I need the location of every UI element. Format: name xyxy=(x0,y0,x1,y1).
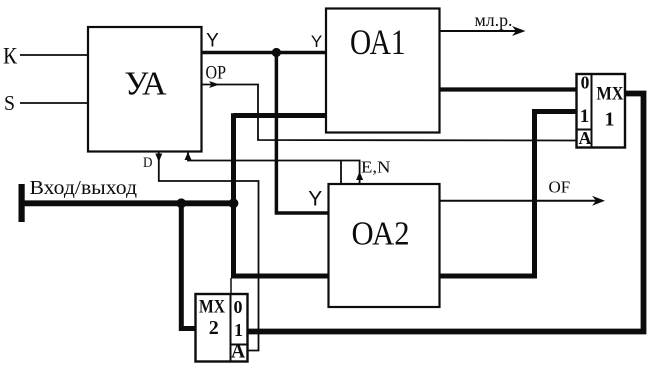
block ОА1 xyxy=(326,9,440,133)
divider MX1 column xyxy=(591,74,593,148)
svg-text:К: К xyxy=(3,43,17,69)
arrowhead D down xyxy=(155,154,162,163)
arrowhead OP xyxy=(209,81,220,88)
arrowhead into УА xyxy=(185,152,192,160)
wire bus to MX2 xyxy=(181,203,195,329)
junction dot on Y wire xyxy=(272,48,281,57)
svg-text:Y: Y xyxy=(206,31,219,52)
junction dot bus right xyxy=(229,198,239,208)
wire Y: УА to ОА1 xyxy=(202,51,327,55)
arrowhead мл.р. xyxy=(512,26,526,36)
svg-text:ОР: ОР xyxy=(206,64,227,84)
wire Y branch to ОА2 xyxy=(276,53,328,214)
arrowhead E,N up xyxy=(356,172,363,181)
svg-text:ОА2: ОА2 xyxy=(352,216,410,253)
svg-text:А: А xyxy=(231,342,245,363)
wire ОА1 output to MX1 input 0 xyxy=(440,87,577,91)
divider MX2 column xyxy=(230,294,232,362)
wire nub above MX2 divider xyxy=(230,278,232,294)
arrowhead OF xyxy=(592,196,605,206)
wire bus Вход/выход xyxy=(21,200,234,206)
svg-text:1: 1 xyxy=(580,106,590,127)
svg-text:МХ: МХ xyxy=(597,84,624,105)
svg-text:Вход/выход: Вход/выход xyxy=(30,177,138,199)
svg-text:2: 2 xyxy=(209,317,219,339)
svg-text:0: 0 xyxy=(581,73,590,93)
block MX1 xyxy=(577,74,626,148)
divider MX2 A cell xyxy=(231,344,248,346)
svg-text:А: А xyxy=(579,128,592,148)
svg-text:0: 0 xyxy=(234,297,243,317)
junction dot bus left xyxy=(176,198,186,208)
wire мл.р. output of ОА1 xyxy=(440,30,518,32)
svg-text:МХ: МХ xyxy=(199,297,225,318)
svg-text:E,N: E,N xyxy=(361,158,391,177)
wire OP: УА to MX1 address xyxy=(202,85,577,141)
svg-text:Y: Y xyxy=(308,188,322,211)
wire E,N: ОА2 to УА xyxy=(188,153,360,185)
wire D: УА to MX2 address xyxy=(159,152,259,351)
terminal bar Вход/выход xyxy=(19,184,25,222)
svg-text:OF: OF xyxy=(549,178,571,197)
wire MX1 output loop to MX2 input 1 xyxy=(248,94,644,332)
wire ОА2 output to MX1 input 1 xyxy=(440,112,577,277)
input K xyxy=(20,54,88,56)
svg-text:D: D xyxy=(143,155,153,171)
wire OF output of ОА2 xyxy=(440,200,600,202)
svg-text:УА: УА xyxy=(124,66,167,103)
block УА xyxy=(88,27,202,152)
svg-text:мл.р.: мл.р. xyxy=(475,10,513,30)
block MX2 xyxy=(196,294,248,362)
block ОА2 xyxy=(329,184,440,307)
svg-text:S: S xyxy=(4,91,15,115)
svg-text:Y: Y xyxy=(311,32,322,51)
wire bus into ОА1 xyxy=(234,113,327,118)
svg-text:ОА1: ОА1 xyxy=(350,22,406,62)
input S xyxy=(20,102,88,104)
wire E,N second drop xyxy=(340,161,342,185)
wire bus vertical to ОА2 xyxy=(234,113,329,276)
divider MX1 A cell xyxy=(577,129,592,131)
svg-text:1: 1 xyxy=(605,109,615,131)
svg-text:1: 1 xyxy=(234,320,243,340)
